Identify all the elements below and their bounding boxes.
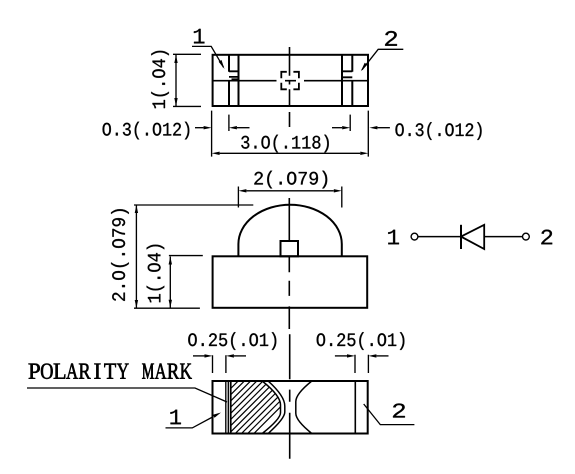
left terminal inner line B	[238, 55, 240, 106]
body rectangle	[213, 256, 368, 308]
dimension 0.25(.01) left	[188, 332, 276, 373]
dimension 0.3(.012) left	[103, 115, 250, 140]
package outline (bottom view)	[213, 381, 368, 434]
package outline (top view)	[213, 55, 368, 106]
dimension 2(.079)	[238, 171, 341, 208]
hatch pattern in polarity mark region	[176, 377, 310, 437]
dimension 2.0(.079) left	[111, 205, 253, 308]
dimension 1(.04) top-left	[173, 54, 201, 106]
right terminal step bars	[342, 71, 352, 77]
vertical centerline front view	[288, 198, 290, 329]
small square on body top	[281, 241, 299, 256]
node 1 label	[388, 230, 399, 245]
cathode bar	[460, 225, 462, 249]
pin 2 label (top view)	[361, 31, 404, 71]
centerline bottom view	[289, 334, 291, 459]
dimension 1(.04) front	[147, 245, 203, 308]
pin 2 label (bottom view)	[364, 404, 415, 425]
wire	[484, 236, 522, 238]
right curve	[296, 381, 312, 434]
right terminal inner line B	[351, 55, 353, 106]
node 2 label	[541, 230, 552, 245]
terminal circle 2	[523, 233, 530, 240]
pin 1 label (top view)	[192, 29, 225, 69]
horizontal centerline of top view	[213, 80, 368, 82]
dome	[238, 205, 341, 257]
left terminal inner line A	[228, 55, 230, 106]
POLARITY MARK label	[27, 364, 227, 403]
pin 1 label (bottom view)	[166, 410, 222, 428]
hatch boundary vertical	[230, 381, 232, 434]
right terminal inner line A	[341, 55, 343, 106]
dimension 0.25(.01) right	[317, 332, 405, 373]
left inner curve	[268, 381, 285, 434]
terminal circle 1	[411, 233, 418, 240]
left terminal step bars	[229, 71, 239, 79]
wire	[418, 236, 461, 238]
right inner line	[354, 381, 356, 434]
left outer curve (hatch edge)	[262, 381, 280, 434]
dimension 3.0(.118)	[212, 111, 369, 157]
vertical centerline of top view	[289, 47, 291, 127]
center mark dashed square	[281, 72, 299, 90]
dimension 0.3(.012) right	[332, 115, 482, 140]
diode triangle	[461, 225, 484, 249]
left terminal double lines	[226, 381, 229, 434]
